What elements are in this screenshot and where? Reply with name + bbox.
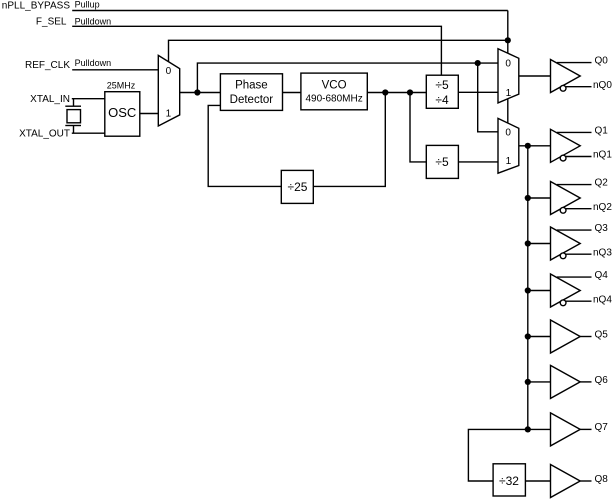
svg-text:÷4: ÷4 (435, 93, 449, 107)
junction tap Q6 (525, 379, 531, 385)
wire /5/4 to mux U2 (458, 91, 498, 93)
buffer B0 Q0 (551, 60, 592, 93)
svg-text:Pulldown: Pulldown (75, 58, 112, 68)
junction tap Q3 (525, 240, 531, 246)
svg-text:Q3: Q3 (595, 223, 609, 234)
wire to /32 divider (468, 429, 527, 481)
svg-text:1: 1 (506, 88, 512, 99)
wire mux U3 output (519, 145, 551, 147)
junction tap Q2 (525, 195, 531, 201)
junction VCO out B (407, 89, 413, 95)
svg-text:Q8: Q8 (595, 474, 609, 485)
junction tap Q4 (525, 287, 531, 293)
svg-text:nQ1: nQ1 (593, 150, 612, 161)
mux U3 output select Q1 (498, 118, 519, 173)
wire bypass clock (197, 63, 498, 92)
svg-text:Pullup: Pullup (75, 0, 100, 9)
svg-text:OSC: OSC (108, 105, 136, 120)
divider /25 (281, 170, 313, 203)
wire feedback down (313, 93, 385, 187)
wire XTAL_IN (72, 98, 105, 100)
wire nPLL_BYPASS select vertical (507, 11, 509, 54)
VCO U6 (301, 73, 367, 110)
junction tap Q7 (525, 426, 531, 432)
crystal Y1 body (67, 110, 81, 123)
svg-text:nPLL_BYPASS: nPLL_BYPASS (2, 1, 71, 12)
junction nPLL_BYPASS select node (505, 37, 511, 43)
svg-text:Q1: Q1 (595, 126, 609, 137)
wire tap Q2 (528, 197, 551, 199)
oscillator OSC (105, 92, 140, 137)
wire tap Q3 (528, 243, 551, 245)
buffer B8 Q8 (551, 465, 592, 498)
wire bypass to mux U3 (478, 63, 498, 132)
svg-text:nQ3: nQ3 (593, 247, 612, 258)
svg-text:1: 1 (166, 108, 172, 119)
wire F_SEL (72, 26, 441, 75)
svg-text:Q5: Q5 (595, 330, 609, 341)
svg-text:Phase: Phase (235, 80, 268, 92)
wire tap Q5 (528, 336, 551, 338)
svg-text:Detector: Detector (230, 94, 274, 106)
svg-text:Q0: Q0 (595, 56, 609, 67)
buffer B2 Q2 (551, 182, 592, 215)
buffer B5 Q5 (551, 320, 592, 353)
crystal Y1 bottom plate (65, 125, 81, 127)
svg-text:Q7: Q7 (595, 422, 609, 433)
svg-text:Q2: Q2 (595, 178, 609, 189)
svg-text:Q6: Q6 (595, 375, 609, 386)
buffer B1 Q1 (551, 129, 592, 162)
wire REF_CLK (72, 69, 158, 71)
crystal Y1 top plate (65, 105, 81, 107)
divider /32 (493, 464, 525, 496)
svg-text:XTAL_IN: XTAL_IN (30, 94, 70, 105)
svg-text:nQ2: nQ2 (593, 202, 612, 213)
mux U1 input select (158, 55, 179, 126)
wire /25 to PD (208, 105, 281, 186)
wire tap Q7 (528, 428, 551, 430)
wire XTAL_OUT (72, 132, 105, 134)
svg-text:XTAL_OUT: XTAL_OUT (19, 129, 70, 140)
mux U2 output select Q0 (498, 49, 519, 103)
wire mux U1 output (180, 92, 221, 94)
junction tap Q5 (525, 333, 531, 339)
wire OSC output (140, 113, 159, 115)
svg-text:nQ0: nQ0 (593, 80, 612, 91)
svg-text:÷25: ÷25 (288, 180, 308, 194)
svg-text:0: 0 (505, 127, 511, 138)
junction VCO out A (382, 89, 388, 95)
svg-text:Pulldown: Pulldown (75, 16, 112, 26)
svg-text:0: 0 (166, 66, 172, 77)
svg-text:÷5: ÷5 (435, 78, 449, 92)
buffer B3 Q3 (551, 227, 592, 260)
junction node REF (194, 89, 200, 95)
svg-text:1: 1 (506, 156, 512, 167)
wire tap Q4 (528, 290, 551, 292)
phase detector U5 (220, 74, 282, 111)
wire /32 to buffer (525, 480, 550, 482)
svg-text:nQ4: nQ4 (593, 294, 612, 305)
svg-text:Q4: Q4 (595, 270, 609, 281)
wire PD to VCO (283, 92, 301, 94)
wire tap Q6 (528, 381, 551, 383)
buffer B4 Q4 (551, 274, 592, 307)
wire to /5 divider (410, 93, 426, 162)
wire /5 to mux U3 (458, 161, 498, 163)
divider /5 /4 (426, 75, 458, 108)
wire crystal top lead (73, 99, 75, 107)
buffer B6 Q6 (551, 365, 592, 398)
wire nPLL_BYPASS horizontal (72, 10, 508, 12)
wire crystal bottom lead (73, 126, 75, 134)
svg-text:REF_CLK: REF_CLK (25, 60, 70, 71)
junction bypass split (475, 60, 481, 66)
svg-text:25MHz: 25MHz (107, 81, 136, 91)
divider /5 (426, 145, 458, 178)
wire mux U2 output (519, 75, 551, 77)
wire select to input mux (169, 40, 508, 62)
svg-text:490-680MHz: 490-680MHz (305, 94, 362, 105)
wire select between muxes (507, 99, 509, 123)
svg-text:VCO: VCO (322, 80, 347, 92)
svg-text:0: 0 (505, 58, 511, 69)
wire VCO output (367, 92, 426, 94)
svg-text:F_SEL: F_SEL (36, 17, 67, 28)
junction trunk top (525, 143, 531, 149)
svg-text:÷32: ÷32 (499, 474, 519, 488)
svg-text:÷5: ÷5 (435, 155, 449, 169)
wire output trunk (527, 146, 529, 430)
buffer B7 Q7 (551, 413, 592, 446)
